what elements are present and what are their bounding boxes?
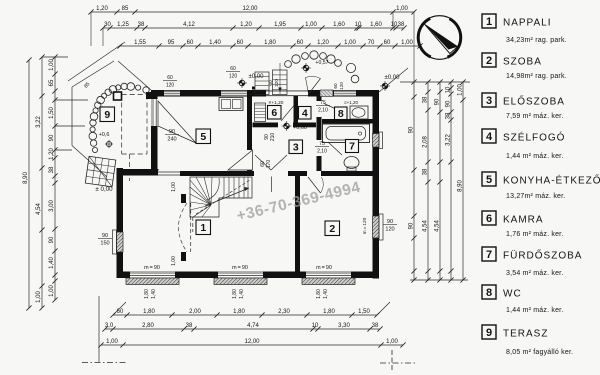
svg-text:6: 6 [271,107,277,119]
svg-text:120: 120 [166,83,175,89]
kitchen counter sink [219,98,243,111]
svg-text:ELŐSZOBA: ELŐSZOBA [503,94,565,108]
dimension chain bottom rowC (1,00|12,00|1,00) [98,339,405,348]
svg-text:3: 3 [293,141,299,153]
dimension chain right outer (1,00|8,90) [457,79,465,282]
svg-text:120: 120 [274,79,280,87]
svg-text:60: 60 [230,66,236,72]
door gap kitchen wall [247,150,253,170]
right chains top connector line [400,81,470,83]
svg-text:60: 60 [187,40,194,46]
svg-text:1,60: 1,60 [333,22,345,28]
diagonal leader top-right corner [379,68,408,92]
svg-text:90: 90 [102,233,108,239]
bath window right wall [373,134,380,148]
svg-text:1,00: 1,00 [106,339,118,345]
svg-text:WC: WC [503,289,522,300]
svg-text:1,20: 1,20 [317,40,329,46]
svg-text:±0,00: ±0,00 [249,74,265,80]
svg-text:4,54: 4,54 [434,220,440,232]
svg-text:90: 90 [408,222,414,229]
terrace roof overhang dashed [121,95,123,155]
site corner mark bottom-right [391,350,393,372]
dimension chain left outer 8,90 [23,57,32,310]
svg-text:60: 60 [268,80,274,86]
svg-text:4: 4 [486,131,493,143]
interior wall hall-bath lower [318,171,373,176]
wall WC-bath horizontal [322,119,373,124]
svg-text:8,90: 8,90 [457,180,463,192]
svg-text:1,95: 1,95 [274,22,286,28]
svg-text:1,40: 1,40 [151,289,157,299]
svg-text:7,59 m² máz. ker.: 7,59 m² máz. ker. [506,113,563,120]
terrace post right [146,92,153,99]
window bottom 3 [306,272,351,278]
svg-text:1,50: 1,50 [49,107,55,119]
svg-text:1,40: 1,40 [49,257,55,269]
svg-text:4,12: 4,12 [183,22,195,28]
entry steps outer [255,72,269,95]
wall bottom exterior [117,272,380,279]
svg-text:1,00: 1,00 [396,6,408,12]
legend entry 2 SZOBA [482,53,496,67]
svg-text:90: 90 [49,134,55,141]
interior wall horizontal right of stair [288,171,322,176]
wall alcove pier upper [181,194,186,203]
section mark a [233,172,236,175]
wall alcove pier lower [181,252,186,261]
svg-text:38: 38 [398,22,405,28]
door opening hall to room1 (V swing) [254,171,287,177]
svg-text:60: 60 [384,40,391,46]
svg-text:90: 90 [49,236,55,243]
svg-text:120: 120 [229,74,238,80]
wall right exterior [373,90,380,279]
svg-text:60: 60 [117,309,124,315]
legend entry 4 SZ&#201;LFOG&#211; [482,129,496,143]
room label 7 furdoszoba [346,140,359,153]
svg-text:4,54: 4,54 [36,203,42,215]
dimension chain right inner 90/90 [408,79,416,282]
interior wall kitchen-hall vertical [247,96,252,171]
svg-text:95: 95 [168,40,175,46]
svg-text:1,25: 1,25 [117,22,129,28]
svg-text:90: 90 [169,129,175,135]
door gap bathroom [316,140,322,156]
door leaf bathroom [328,142,342,155]
svg-text:2,10: 2,10 [317,149,327,155]
svg-text:1,20: 1,20 [96,6,108,12]
connector right chains top [413,12,415,82]
svg-text:1,00: 1,00 [36,291,42,303]
svg-text:1,00: 1,00 [305,22,317,28]
svg-text:1,55: 1,55 [134,40,146,46]
svg-text:1,40: 1,40 [323,289,329,299]
svg-text:5: 5 [200,131,206,143]
hatched wall segment top [320,90,333,97]
svg-text:1: 1 [200,222,206,234]
svg-text:60: 60 [167,75,173,81]
french door swing [158,101,196,143]
svg-text:± 0,00: ± 0,00 [95,186,113,193]
room label 2 szoba [325,221,340,236]
window left wall 90/150 [117,232,124,252]
room label 3 eloszoba [289,140,303,154]
terrace paving hatch square [85,156,115,186]
spot level hall +0,60 [284,123,290,129]
svg-text:3,0: 3,0 [105,323,114,329]
svg-text:1,20: 1,20 [49,148,55,160]
svg-text:1,00: 1,00 [457,84,463,96]
door swing room2 [308,177,321,193]
door gap room6 [278,122,293,128]
site corner mark bottom-left [98,296,100,362]
door gap WC [316,101,322,117]
svg-text:4,54: 4,54 [422,220,428,232]
section mark b [252,87,255,90]
svg-text:m = 90: m = 90 [316,265,332,271]
svg-text:1,44 m² máz. ker.: 1,44 m² máz. ker. [506,307,563,314]
dimension chain right 4 (10|10|90|38|3,22) [445,79,453,282]
kamra shelf hatch [255,103,266,122]
legend entry 6 KAMRA [482,211,496,225]
svg-text:85: 85 [122,6,129,12]
svg-text:m = 90: m = 90 [232,265,248,271]
svg-text:30: 30 [104,22,111,28]
svg-text:2,10: 2,10 [318,108,328,114]
svg-text:6: 6 [486,213,492,225]
window gap top wall B [221,91,247,96]
svg-text:90: 90 [445,100,451,107]
svg-text:10: 10 [355,22,362,28]
window gap top wall A [164,91,180,96]
svg-text:1,80: 1,80 [323,309,335,315]
dimension chain bottom rowB (3,0|2,80|38|4,74|10|3,30|38) [102,323,382,332]
legend entry 8 WC [482,285,496,299]
svg-text:4: 4 [302,107,308,119]
svg-text:70: 70 [368,40,375,46]
svg-text:SZÉLFOGÓ: SZÉLFOGÓ [503,131,565,144]
room label 8 wc [335,107,348,120]
svg-text:5: 5 [486,174,492,186]
svg-text:12,00: 12,00 [244,339,260,345]
room label 1 nappali [196,220,211,235]
svg-text:210: 210 [270,133,276,142]
entry shrubs [285,51,359,83]
terrace spot marker [106,141,111,146]
interior wall horizontal main [158,171,254,176]
svg-text:38: 38 [422,96,428,103]
dimension chain top row1 (1,20|85|12,00|1,00) [88,6,416,15]
svg-text:1,00: 1,00 [386,339,398,345]
svg-text:34,23m² rag. park.: 34,23m² rag. park. [506,37,567,44]
svg-text:38: 38 [445,112,451,119]
dimension chain right 3 (90|4,54) [434,79,442,282]
svg-text:+0,6: +0,6 [99,132,110,138]
legend entry 5 KONYHA-&#201;TKEZ&#336; [482,172,496,186]
bathtub [323,124,370,143]
window bottom 1 [130,272,175,278]
svg-text:TERASZ: TERASZ [503,329,548,340]
svg-text:1,00: 1,00 [49,59,55,71]
dimension chain left inner (1,00|65|1,50|90|1,20|38|3,00|90|1,40|1,00) [49,54,58,302]
diagonal leader top-left corner [68,42,125,81]
left chains top connector [42,56,68,58]
french door gap left wall [151,99,157,126]
connector left rows [90,12,92,46]
svg-text:1,76 m² máz. ker.: 1,76 m² máz. ker. [506,231,563,238]
terrace site boundary [72,61,114,87]
svg-text:8: 8 [338,108,344,120]
svg-text:≡+1,20: ≡+1,20 [344,100,359,105]
svg-text:1,80: 1,80 [232,289,238,299]
svg-text:2: 2 [486,55,492,67]
svg-text:9: 9 [104,109,110,121]
svg-text:1,80: 1,80 [233,309,245,315]
window right wall [373,216,380,238]
room label 9 terasz [100,107,115,122]
window gap top wall WC [334,91,356,96]
extension line terrace b [55,125,85,127]
svg-text:7: 7 [349,141,355,153]
svg-text:1: 1 [486,16,492,28]
svg-text:2: 2 [329,223,335,235]
stair dashed continuation [192,217,194,232]
entry door gap top wall [266,90,308,96]
svg-text:60: 60 [237,40,244,46]
svg-text:m = 90: m = 90 [144,265,160,271]
dimension chain bottom rowA (60|1,80|2,00|1,80|2,30|1,80|1,50) [110,309,379,318]
svg-text:120: 120 [385,227,394,233]
interior wall under rooms 6-4 [253,123,317,128]
legend entry 7 F&#220;RD&#336;SZOBA [482,247,496,261]
svg-text:1,80: 1,80 [144,289,150,299]
opening alcove [158,171,180,177]
svg-text:1,80: 1,80 [264,40,276,46]
svg-text:38: 38 [138,22,145,28]
spot level right 0,00 [382,83,388,89]
spot level entry 0,00 [239,80,245,86]
compass north arrow [418,16,462,60]
svg-text:2,80: 2,80 [142,323,154,329]
door opening hall to room2 [307,171,321,177]
svg-text:120: 120 [339,82,344,90]
alcove dashed swing arc [179,203,188,252]
svg-text:1,60: 1,60 [370,22,382,28]
svg-text:3,30: 3,30 [338,323,350,329]
extension line terrace c [55,149,72,151]
window bottom 2 [218,272,263,278]
svg-text:FÜRDŐSZOBA: FÜRDŐSZOBA [503,248,582,262]
svg-text:75: 75 [320,100,326,106]
svg-text:1,00: 1,00 [171,256,177,266]
svg-text:1,50: 1,50 [358,309,370,315]
svg-text:90: 90 [408,126,414,133]
terrace hedge scallop border [89,83,149,153]
entry steps inner [273,70,288,95]
V door apex line [271,177,273,193]
svg-text:8,90: 8,90 [23,172,29,184]
svg-text:KAMRA: KAMRA [503,215,544,226]
svg-text:1,00: 1,00 [171,182,177,192]
svg-text:KONYHA-ÉTKEZŐ: KONYHA-ÉTKEZŐ [503,173,600,187]
dimension chain top row2 (30|1,25|38|4,12|1,20|1,95|1,00|1,60|10|1,60|10|38) [100,22,406,31]
svg-text:13,27m² máz. ker.: 13,27m² máz. ker. [506,193,565,200]
wall top exterior [151,90,379,97]
svg-text:NAPPALI: NAPPALI [503,18,552,29]
svg-text:3,54 m² máz. ker.: 3,54 m² máz. ker. [506,270,563,277]
legend block [482,14,600,356]
terrace post left [114,92,122,100]
dimension chain left middle (3,22|4,54|...) [36,54,45,310]
legend entry 3 EL&#336;SZOBA [482,93,496,107]
dimension chain right 2 (38|2,08|38|4,54) [422,79,430,282]
svg-text:m = 120: m = 120 [362,217,368,234]
svg-text:4,74: 4,74 [247,323,259,329]
alcove dashed door line [190,203,192,252]
interior wall hall-bath vertical [317,96,322,171]
svg-text:150: 150 [100,241,109,247]
entry door swing outward [309,79,321,95]
svg-text:60: 60 [333,83,338,89]
svg-text:240: 240 [167,137,176,143]
svg-text:3: 3 [486,95,492,107]
svg-text:38: 38 [422,168,428,175]
svg-text:170: 170 [266,160,272,169]
staircase winder + flight [190,177,252,217]
svg-text:90: 90 [387,219,393,225]
kitchen door swing triangle [228,150,253,170]
interior wall room6-4 vertical [294,96,299,123]
room label 6 kamra [268,106,282,120]
svg-text:1,44 m² máz. ker.: 1,44 m² máz. ker. [506,153,563,160]
door leaf room6 [281,106,294,121]
svg-text:8,05 m² fagyálló ker.: 8,05 m² fagyálló ker. [506,349,573,356]
svg-text:7: 7 [486,249,492,261]
svg-text:9: 9 [486,327,492,339]
toilet [344,157,359,169]
svg-text:8: 8 [486,287,492,299]
bottom rowA end diagonals [113,302,126,315]
right chains bottom connector line [410,279,468,281]
svg-text:+0,57: +0,57 [315,60,328,66]
svg-text:60: 60 [297,40,304,46]
svg-text:38: 38 [372,323,379,329]
svg-text:3,22: 3,22 [445,134,451,146]
svg-text:65: 65 [49,79,55,86]
dimension chain top row3 (1,55|95|60|1,40|60|1,80|60|1,20|1,00|70|60|1,00) [117,40,422,49]
svg-text:75: 75 [319,141,325,147]
legend entry 1 NAPPALI [482,14,496,28]
svg-text:10: 10 [312,323,319,329]
svg-text:10: 10 [445,86,451,93]
wc washbasin [350,106,368,119]
svg-text:1,00: 1,00 [401,40,413,46]
svg-text:+0,60: +0,60 [293,125,307,131]
svg-text:12,00: 12,00 [242,6,258,12]
svg-text:38: 38 [49,166,55,173]
svg-text:1,80: 1,80 [316,289,322,299]
wall left lower exterior [117,168,124,278]
svg-text:2,00: 2,00 [189,309,201,315]
legend entry 9 TERASZ [482,325,496,339]
svg-text:3,22: 3,22 [36,116,42,128]
svg-text:2,08: 2,08 [422,136,428,148]
svg-text:38: 38 [186,323,193,329]
svg-text:1,40: 1,40 [239,289,245,299]
svg-text:90: 90 [434,98,440,105]
svg-text:3,00: 3,00 [49,200,55,212]
door leaf WC [324,104,338,111]
svg-text:1,20: 1,20 [240,22,252,28]
wall left upper kitchen [151,90,158,171]
wall alcove top horizontal [117,169,159,176]
svg-text:1,40: 1,40 [209,40,221,46]
interior wall rooms 1-2 divider [295,176,300,272]
svg-text:1,00: 1,00 [49,285,55,297]
svg-text:±0,00: ±0,00 [385,75,401,81]
extension line terrace a [55,99,88,101]
svg-text:14,98m² rag. park.: 14,98m² rag. park. [506,73,567,80]
room label 5 konyha [196,129,211,144]
svg-text:2,30: 2,30 [278,309,290,315]
svg-text:SZOBA: SZOBA [503,57,542,68]
svg-text:1,80: 1,80 [143,309,155,315]
room label 4 szelfogo [299,107,312,120]
svg-text:1,00: 1,00 [344,40,356,46]
